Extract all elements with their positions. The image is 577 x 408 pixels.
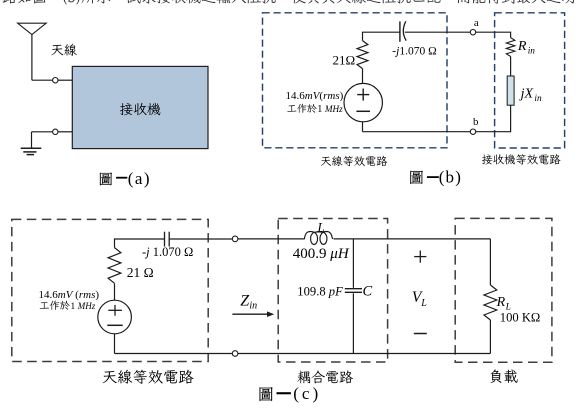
svg-text:in: in [528,46,536,56]
coupling circuit dashed box [278,219,387,363]
wire node b to source [363,131,471,133]
svg-text:14.6mV(rms): 14.6mV(rms) [286,90,344,102]
svg-text:1 MHz: 1 MHz [70,301,95,312]
wire to node [32,79,53,81]
wire terminal to inductor [238,238,305,240]
load dashed box [455,218,552,362]
wire resistor top to capacitor [115,239,165,248]
svg-text:R: R [517,39,527,54]
caption glyph 一 [427,176,439,178]
svg-text:400.9 μH: 400.9 μH [293,246,350,262]
caption 負載 [490,369,517,383]
wire antenna down [31,35,33,81]
Zin arrow [232,313,268,315]
wire capacitor C to bottom [352,293,354,353]
caption 接收機等效電路 [482,154,561,165]
capacitor C [345,288,362,290]
wire box to node lower [58,131,72,133]
wire down to capacitor C [352,239,354,288]
label 接收機 [120,103,161,115]
resistor 21 ohm [357,41,368,69]
node terminal bottom [53,129,58,134]
resistor Rin [506,38,515,57]
svg-text:1 MHz: 1 MHz [317,104,343,115]
wire node to box [58,79,72,81]
wire source top to resistor [114,284,116,301]
svg-text:14.6mV (rms): 14.6mV (rms) [39,289,100,301]
caption glyph 一 [116,177,127,179]
inductor L coil [304,231,332,244]
svg-text:-j 1.070 Ω: -j 1.070 Ω [142,245,193,259]
antenna symbol [18,23,47,34]
top terminal node [232,236,238,242]
resistor 21 ohm (c) [108,248,121,284]
svg-text:(a): (a) [128,169,151,188]
cut-off text line at top [3,0,577,5]
svg-text:b: b [473,116,479,128]
wire cap to top terminal [169,238,232,240]
svg-text:21Ω: 21Ω [333,52,356,67]
svg-text:in: in [249,300,257,311]
svg-text:109.8 pF: 109.8 pF [297,285,343,299]
wire RL to bottom wire [489,320,491,354]
svg-text:in: in [534,94,542,104]
caption 天線等效電路 (c) [103,370,194,384]
svg-text:R: R [496,295,506,310]
caption glyph 一 [277,392,291,394]
reactance jXin box [507,76,514,105]
voltage source (c) [98,300,132,334]
svg-text:(c): (c) [293,384,321,403]
wire cap to node a [405,31,471,33]
wire node a to Rin [476,32,511,37]
source freq (c) [40,301,70,310]
svg-text:L: L [317,219,325,234]
svg-text:C: C [363,284,373,300]
node terminal top [53,78,58,83]
bottom terminal node [232,351,238,357]
capacitor -j1.070 (curved plate) [399,21,401,41]
receiver block 接收機 [72,66,208,148]
wire source bottom [114,334,116,354]
svg-text:L: L [420,298,427,309]
svg-text:(b): (b) [439,167,462,186]
node b [470,129,475,134]
caption 圖一(c) glyph 圖 [260,387,273,401]
ground [31,132,33,149]
wire load down [489,239,491,285]
resistor RL [484,285,497,320]
caption 圖一(b) glyph 圖 [410,171,423,184]
capacitor -j1.070 (c) [164,232,166,247]
wire node to ground [32,131,53,133]
plus sign of VL [414,256,426,258]
wire Rin to jXin [510,56,512,76]
antenna equivalent circuit dashed box (c) [12,219,208,361]
wire source bottom [362,122,364,132]
svg-text:a: a [474,17,479,29]
bottom wire [238,353,491,355]
wire source top to resistor [362,69,364,84]
caption 圖一(a) glyph 圖 [100,173,112,186]
wire jXin to node b [476,105,511,132]
svg-text:100 KΩ: 100 KΩ [500,311,541,325]
receiver equivalent circuit dashed box [495,13,565,148]
minus sign of VL [414,333,427,335]
antenna equivalent circuit dashed box [263,13,448,148]
caption 耦合電路 [297,370,353,383]
source freq 工作於1 MHz [287,104,316,113]
node a [470,30,475,35]
wire inductor to load [334,238,491,240]
voltage source Vs [344,83,382,121]
label 天線 [51,44,77,56]
caption 天線等效電路 [321,156,388,166]
wire bottom terminal to source [115,353,233,355]
wire resistor top to cap [363,32,400,40]
svg-text:jX: jX [519,87,534,102]
svg-text:21 Ω: 21 Ω [127,265,154,280]
svg-text:-j1.070 Ω: -j1.070 Ω [392,45,436,57]
